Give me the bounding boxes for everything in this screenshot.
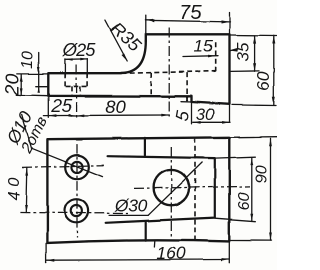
svg-text:20: 20 [2, 74, 24, 97]
svg-text:5: 5 [172, 108, 194, 122]
svg-text:90: 90 [254, 165, 271, 183]
svg-text:10: 10 [19, 51, 36, 69]
svg-text:Ø25: Ø25 [62, 40, 96, 60]
svg-text:60: 60 [236, 192, 253, 210]
svg-text:75: 75 [179, 2, 202, 24]
svg-text:R35: R35 [107, 18, 146, 56]
svg-text:25: 25 [50, 95, 72, 116]
svg-text:40: 40 [6, 177, 24, 201]
svg-text:Ø30: Ø30 [114, 196, 148, 216]
svg-text:30: 30 [196, 106, 215, 124]
svg-text:160: 160 [156, 243, 185, 263]
svg-text:35: 35 [233, 42, 252, 61]
svg-text:80: 80 [105, 96, 126, 117]
svg-text:60: 60 [253, 71, 273, 91]
svg-text:15: 15 [194, 36, 213, 55]
